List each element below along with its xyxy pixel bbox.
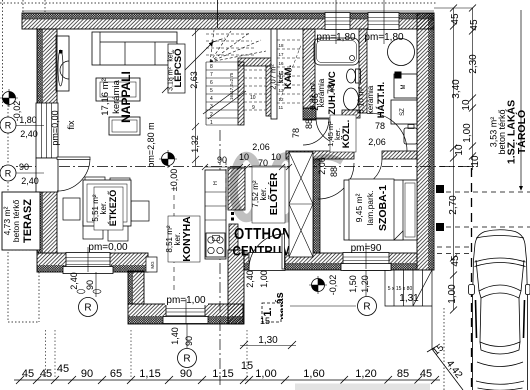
washing machine M bbox=[394, 74, 417, 98]
wall right exterior bbox=[417, 13, 434, 270]
svg-text:-0,02: -0,02 bbox=[328, 275, 338, 296]
svg-text:16x17,2=2,75: 16x17,2=2,75 bbox=[229, 72, 234, 100]
svg-text:3,53 m²: 3,53 m² bbox=[489, 117, 499, 148]
svg-text:7,52 m²: 7,52 m² bbox=[251, 180, 260, 207]
watermark Otthon Centrum bbox=[234, 156, 343, 219]
TV bench bbox=[109, 117, 140, 135]
svg-text:3,40: 3,40 bbox=[451, 79, 462, 99]
window bottom pm=90 bbox=[341, 253, 391, 271]
entrance door leaf and arc bbox=[282, 234, 285, 269]
wall KONYHA / ELOTER upper bbox=[228, 168, 245, 210]
wall KOZL / SZOBA-1 left piece bbox=[286, 151, 354, 159]
svg-text:1: 1 bbox=[210, 120, 213, 126]
wall kitchen-bulge bottom bbox=[128, 304, 243, 324]
svg-text:-0,02: -0,02 bbox=[12, 101, 22, 122]
washbasin bbox=[344, 88, 359, 110]
svg-text:H: H bbox=[213, 181, 219, 185]
dryer SZ bbox=[391, 100, 417, 124]
wall bottom-left exterior bbox=[37, 253, 148, 272]
svg-text:kerámia: kerámia bbox=[111, 79, 122, 114]
label SZOBA-1 bbox=[349, 179, 394, 240]
svg-text:78: 78 bbox=[375, 121, 385, 131]
svg-text:85: 85 bbox=[397, 368, 409, 380]
svg-text:11: 11 bbox=[279, 105, 284, 110]
section line vertical bbox=[219, 130, 221, 385]
window top 1 pm=1,80 bbox=[325, 13, 350, 30]
stairs upper flight dashed bbox=[244, 70, 266, 110]
svg-text:pm=0,00: pm=0,00 bbox=[88, 242, 128, 253]
level marker kitchen bbox=[159, 150, 179, 191]
svg-text:18: 18 bbox=[279, 43, 285, 48]
wall top exterior bbox=[22, 11, 434, 29]
wall left exterior bbox=[37, 29, 57, 253]
label ELOTER bbox=[251, 166, 285, 223]
svg-text:10: 10 bbox=[239, 152, 249, 162]
svg-text:45: 45 bbox=[450, 255, 461, 267]
car top view bbox=[469, 230, 530, 390]
svg-text:65: 65 bbox=[110, 368, 122, 380]
svg-text:KÖZL.: KÖZL. bbox=[341, 120, 352, 149]
small sink HAZT bbox=[404, 128, 417, 144]
svg-text:1,00: 1,00 bbox=[462, 123, 473, 143]
marker window pm90 and entrance line bbox=[245, 270, 377, 315]
svg-text:1,40: 1,40 bbox=[170, 327, 180, 345]
svg-text:5,10 m²: 5,10 m² bbox=[357, 86, 366, 113]
svg-text:1,15: 1,15 bbox=[139, 368, 160, 380]
chain 1,30 bbox=[240, 335, 296, 349]
pillar checkered bbox=[303, 108, 316, 120]
dining chairs bbox=[63, 177, 149, 241]
svg-text:beton térkő: beton térkő bbox=[497, 109, 507, 154]
door dash marks bbox=[231, 212, 234, 215]
door ELOTER arc bbox=[318, 163, 354, 199]
label ZUH+WC bbox=[309, 71, 339, 115]
svg-text:88: 88 bbox=[329, 167, 339, 177]
svg-text:78: 78 bbox=[291, 128, 301, 138]
stove and sink bbox=[206, 233, 225, 257]
svg-text:90: 90 bbox=[81, 368, 93, 380]
window left fix 1,80 bbox=[36, 103, 58, 158]
svg-text:R: R bbox=[363, 302, 370, 313]
door opening left 90 bbox=[36, 158, 58, 192]
svg-text:7: 7 bbox=[210, 72, 213, 78]
wall KOZL / SZOBA-1 right piece bbox=[382, 151, 417, 159]
svg-text:90: 90 bbox=[217, 155, 227, 165]
svg-text:2,40: 2,40 bbox=[245, 270, 255, 288]
roof overhang dotted bbox=[0, 2, 436, 4]
svg-text:bm=2,80 m: bm=2,80 m bbox=[146, 122, 156, 167]
svg-text:70: 70 bbox=[258, 158, 268, 168]
svg-text:SZ: SZ bbox=[400, 108, 406, 116]
wall ELOTER / SZOBA-1 bbox=[313, 159, 320, 253]
svg-text:R: R bbox=[5, 169, 12, 179]
door ZUH leaf and arc bbox=[316, 117, 342, 119]
dining table bbox=[83, 180, 131, 226]
wall KAM / ZUH bbox=[303, 29, 315, 108]
boiler circle HAZT bbox=[388, 39, 415, 66]
terrace dotted boundary bbox=[8, 105, 39, 322]
svg-text:45: 45 bbox=[22, 368, 34, 380]
kitchen dashed edges bbox=[173, 195, 175, 303]
svg-text:1,20: 1,20 bbox=[355, 368, 376, 380]
right vertical dim line 1 bbox=[447, 5, 465, 314]
right vertical dim line 2 bbox=[461, 5, 481, 171]
KAM shelf dashes bbox=[280, 45, 301, 100]
svg-text:ker.: ker. bbox=[99, 202, 108, 215]
interior dim chain 90 10 70 10 bbox=[202, 152, 292, 170]
svg-text:90: 90 bbox=[85, 280, 95, 290]
svg-text:45: 45 bbox=[469, 19, 480, 31]
svg-text:2,07 m²: 2,07 m² bbox=[269, 64, 278, 90]
svg-text:45: 45 bbox=[450, 13, 461, 25]
svg-text:R: R bbox=[183, 354, 190, 365]
marker door left 90 bbox=[0, 162, 44, 186]
diagonal boundary 4,42 bbox=[432, 349, 463, 390]
svg-text:ÉTKEZŐ: ÉTKEZŐ bbox=[107, 190, 118, 227]
svg-text:2,40: 2,40 bbox=[69, 272, 79, 290]
svg-text:4: 4 bbox=[210, 96, 213, 102]
wall KAM left thin bbox=[271, 29, 277, 119]
radiator bbox=[56, 36, 69, 91]
door left leaf and arc bbox=[57, 157, 90, 160]
wall KONYHA / ELOTER lower piece bbox=[229, 224, 238, 250]
svg-text:kerámia: kerámia bbox=[366, 85, 375, 114]
svg-text:ker.: ker. bbox=[168, 50, 175, 61]
svg-text:12: 12 bbox=[279, 97, 285, 102]
marker window left 1,80 bbox=[0, 115, 44, 139]
faint footer band bbox=[295, 384, 430, 390]
svg-text:SZOBA-1: SZOBA-1 bbox=[377, 185, 389, 231]
svg-text:15: 15 bbox=[260, 316, 270, 326]
svg-text:10: 10 bbox=[271, 152, 281, 162]
svg-text:90: 90 bbox=[184, 336, 194, 346]
exterior steps bottom right bbox=[385, 270, 432, 349]
svg-text:pm=0,00: pm=0,00 bbox=[50, 110, 60, 145]
svg-text:2,30: 2,30 bbox=[468, 54, 479, 74]
dishwasher MG bbox=[146, 257, 157, 272]
marker window kitchen bbox=[170, 324, 197, 368]
svg-text:8: 8 bbox=[210, 64, 213, 70]
wall stair right bbox=[266, 66, 272, 116]
WC bbox=[356, 69, 361, 83]
dim line 2,63 / 1,32 vertical bbox=[192, 29, 199, 166]
svg-text:5 x 15 x 80: 5 x 15 x 80 bbox=[388, 286, 413, 292]
svg-text:90: 90 bbox=[180, 368, 192, 380]
wall stair left bbox=[238, 62, 244, 125]
svg-text:45: 45 bbox=[420, 368, 432, 380]
window bottom-left 90 pm=0,00 bbox=[63, 253, 113, 274]
svg-text:HÁZT.H.: HÁZT.H. bbox=[376, 82, 387, 118]
svg-text:2,40: 2,40 bbox=[21, 176, 39, 186]
svg-text:2,70: 2,70 bbox=[448, 195, 459, 215]
svg-text:90: 90 bbox=[19, 162, 29, 172]
svg-text:beton térkő: beton térkő bbox=[11, 199, 21, 242]
marker window bottom-left bbox=[69, 272, 101, 317]
svg-text:4,73 m²: 4,73 m² bbox=[2, 206, 12, 235]
label KOZL bbox=[326, 115, 356, 152]
svg-text:1,60: 1,60 bbox=[303, 368, 324, 380]
label HAZT.H bbox=[357, 82, 388, 118]
svg-text:1,00: 1,00 bbox=[447, 284, 458, 304]
svg-text:1,31: 1,31 bbox=[399, 293, 419, 304]
svg-text:45: 45 bbox=[57, 363, 69, 375]
svg-text:15: 15 bbox=[241, 360, 253, 372]
svg-text:1,45 m²: 1,45 m² bbox=[326, 121, 335, 147]
svg-text:1,30: 1,30 bbox=[258, 335, 278, 346]
level marker entrance bbox=[309, 275, 338, 296]
svg-text:KONYHA: KONYHA bbox=[181, 216, 193, 262]
svg-text:2,06: 2,06 bbox=[368, 137, 386, 147]
dotted line near steps bbox=[443, 308, 445, 390]
door HAZT arc bbox=[369, 113, 407, 151]
parking dashed lines bbox=[437, 167, 530, 254]
window axes bbox=[88, 0, 384, 324]
svg-text:1,00: 1,00 bbox=[255, 368, 276, 380]
svg-text:2,06: 2,06 bbox=[310, 93, 320, 111]
svg-text:2,06: 2,06 bbox=[252, 142, 270, 152]
wall stair top bbox=[238, 58, 272, 66]
label lakas 1. bbox=[262, 292, 286, 322]
wall ZUH / HAZT bbox=[359, 29, 367, 113]
wall bottom main right part bbox=[244, 253, 417, 270]
svg-text:ker.: ker. bbox=[173, 233, 182, 246]
window top 2 pm=1,80 bbox=[368, 13, 399, 30]
svg-text:M: M bbox=[401, 85, 407, 90]
svg-text:17: 17 bbox=[279, 52, 285, 57]
kitchen counter bbox=[205, 170, 226, 259]
label TERASZ box bbox=[2, 192, 40, 250]
wall kitchen-bulge left bbox=[128, 271, 144, 304]
bed bbox=[344, 180, 417, 240]
section line horizontal bbox=[2, 166, 475, 168]
svg-text:3,18 m²: 3,18 m² bbox=[168, 66, 175, 90]
stairs over KAM dashed treads bbox=[277, 40, 303, 103]
svg-text:ELŐTÉR: ELŐTÉR bbox=[267, 172, 280, 215]
svg-text:fix: fix bbox=[66, 120, 76, 130]
wardrobe with X bbox=[289, 152, 313, 257]
svg-text:10: 10 bbox=[454, 144, 465, 156]
stairs top dashed treads bbox=[206, 30, 266, 62]
shower bbox=[314, 38, 359, 65]
wall kitchen-bulge right bbox=[228, 250, 244, 324]
label box NAPPALI bbox=[100, 71, 133, 123]
svg-text:88: 88 bbox=[304, 119, 314, 129]
stairs lower flight treads bbox=[206, 62, 238, 125]
svg-text:1,00: 1,00 bbox=[259, 270, 269, 288]
svg-text:1,32: 1,32 bbox=[190, 135, 200, 153]
door KAM arc bbox=[303, 119, 329, 145]
label box LEPCSO bbox=[168, 44, 186, 93]
svg-text:10: 10 bbox=[470, 155, 481, 167]
svg-text:1,50: 1,50 bbox=[348, 275, 358, 293]
svg-text:TERASZ: TERASZ bbox=[22, 199, 34, 243]
svg-text:R: R bbox=[84, 303, 91, 314]
svg-text:±0,00: ±0,00 bbox=[169, 169, 179, 191]
svg-text:2: 2 bbox=[210, 112, 213, 118]
svg-text:1,20: 1,20 bbox=[360, 275, 370, 293]
svg-text:78: 78 bbox=[326, 84, 336, 94]
window kitchen pm=1,00 bbox=[163, 304, 208, 324]
stairs numbers lower bbox=[210, 64, 213, 126]
stairs break line bbox=[203, 86, 246, 119]
svg-text:MG: MG bbox=[150, 261, 155, 269]
svg-text:45: 45 bbox=[40, 368, 52, 380]
label TAROLO block bbox=[489, 10, 529, 190]
label KAM bbox=[269, 64, 295, 90]
svg-text:2,40: 2,40 bbox=[20, 129, 38, 139]
parking boundary dash-dot bbox=[471, 168, 473, 390]
svg-text:10: 10 bbox=[461, 99, 472, 111]
coffee table with NAPPALI label bbox=[96, 78, 140, 101]
svg-text:10: 10 bbox=[250, 95, 256, 101]
dim guide dotted lines bbox=[46, 330, 248, 378]
svg-text:9: 9 bbox=[252, 105, 255, 111]
svg-text:6: 6 bbox=[210, 80, 213, 86]
label ETKEZO bbox=[91, 187, 123, 230]
svg-text:5: 5 bbox=[210, 88, 213, 94]
bottom dimension chain main bbox=[14, 360, 440, 384]
wall vent squares bbox=[436, 185, 444, 193]
svg-text:2,63: 2,63 bbox=[189, 71, 199, 89]
level marker top-left bbox=[0, 89, 22, 121]
svg-text:8,51 m²: 8,51 m² bbox=[165, 225, 174, 252]
door SZOBA-1 arc bbox=[354, 159, 382, 187]
svg-text:lam.park.: lam.park. bbox=[365, 191, 375, 226]
svg-text:17,16 m²: 17,16 m² bbox=[100, 78, 111, 116]
svg-text:2,06: 2,06 bbox=[317, 157, 327, 175]
svg-text:ker.: ker. bbox=[259, 188, 268, 201]
svg-text:9,45 m²: 9,45 m² bbox=[354, 193, 364, 222]
stairs direction line with arrow bbox=[162, 42, 213, 93]
svg-text:5,51 m²: 5,51 m² bbox=[91, 194, 100, 221]
wall piece right of ZUH door bbox=[342, 110, 360, 118]
svg-text:3: 3 bbox=[210, 104, 213, 110]
svg-text:1,15: 1,15 bbox=[212, 368, 233, 380]
svg-text:R: R bbox=[5, 121, 12, 131]
entrance door opening 1,00 bbox=[249, 253, 285, 271]
sofa bbox=[92, 32, 177, 65]
label KONYHA bbox=[165, 216, 200, 262]
